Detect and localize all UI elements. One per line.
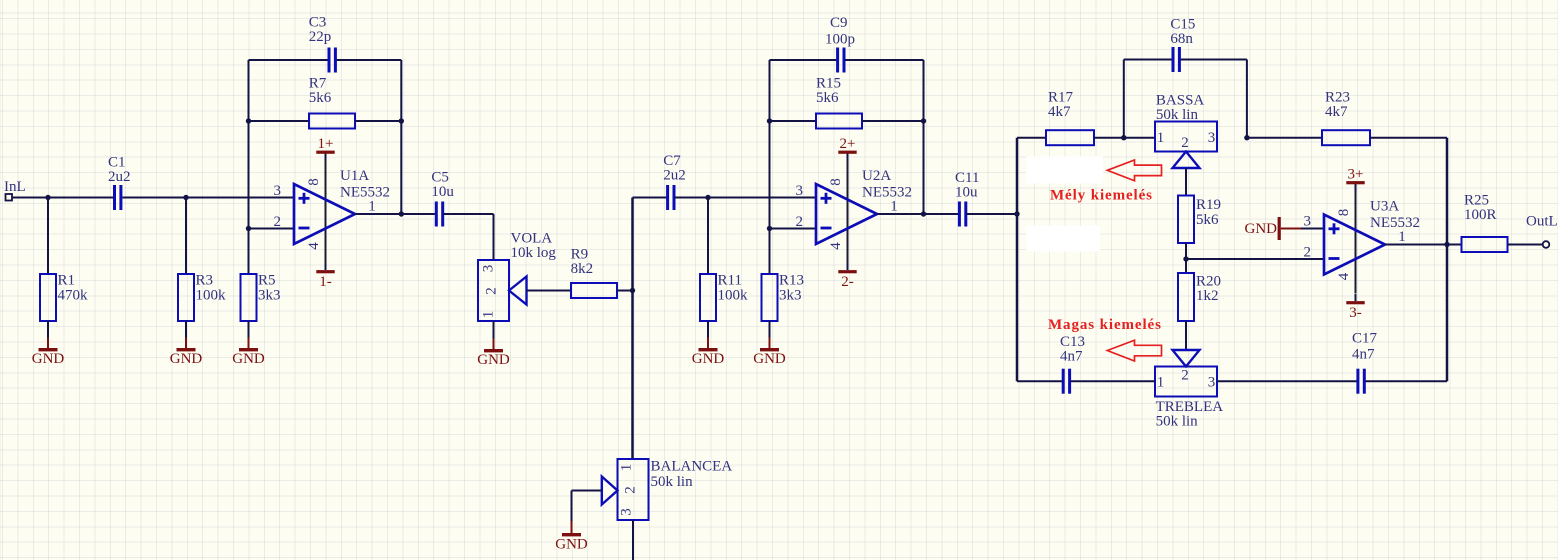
resistor R1	[40, 273, 88, 322]
svg-text:4: 4	[306, 242, 322, 250]
white patch upper	[1026, 157, 1103, 184]
wire right vertical U2A feedback	[923, 60, 925, 214]
svg-text:2: 2	[484, 287, 500, 295]
ground	[477, 339, 510, 369]
wire C9 left	[770, 59, 837, 61]
wire R1 to gnd	[47, 321, 49, 338]
resistor R13	[762, 273, 805, 322]
wire wiper down	[571, 491, 573, 523]
svg-text:8: 8	[1336, 209, 1352, 217]
svg-text:8: 8	[828, 178, 844, 186]
node C15 left junction	[1121, 135, 1126, 140]
svg-text:GND: GND	[753, 351, 786, 367]
svg-text:4: 4	[1336, 272, 1352, 280]
wire R25 to OutL	[1508, 244, 1543, 246]
svg-text:Magas kiemelés: Magas kiemelés	[1048, 317, 1162, 333]
svg-text:Mély kiemelés: Mély kiemelés	[1050, 188, 1153, 204]
svg-text:InL: InL	[4, 179, 26, 195]
wire 1+ to U1A	[325, 153, 327, 162]
node pin2 junction U2A	[767, 226, 772, 231]
potentiometer BASSA	[1155, 93, 1217, 169]
node C11 rail junction	[1014, 211, 1019, 216]
wire GND to U3A pin3	[1301, 228, 1324, 230]
node output U3A junction	[1444, 242, 1449, 247]
node R9 rail junction	[630, 288, 635, 293]
svg-text:22p: 22p	[309, 29, 332, 45]
wire C3 right	[337, 59, 402, 61]
resistor R11	[700, 273, 748, 322]
svg-text:2: 2	[1303, 245, 1311, 261]
svg-text:2u2: 2u2	[663, 168, 686, 184]
resistor R25	[1462, 193, 1508, 253]
wire input	[12, 197, 113, 199]
node feedback R15 left	[767, 118, 772, 123]
wire R15 right	[862, 120, 924, 122]
svg-text:3: 3	[481, 265, 497, 273]
ground	[170, 338, 203, 368]
annotation arrow bass	[1107, 160, 1161, 181]
resistor R5	[241, 273, 281, 322]
svg-text:1: 1	[481, 311, 497, 319]
svg-text:U1A: U1A	[340, 168, 369, 184]
svg-text:R19: R19	[1196, 197, 1221, 213]
wire 2+ to U2A	[847, 153, 849, 162]
ground	[692, 338, 725, 368]
capacitor C17	[1352, 331, 1378, 394]
svg-text:1+: 1+	[318, 136, 334, 152]
svg-text:100k: 100k	[718, 288, 749, 304]
wire pin2 U1A	[249, 228, 295, 230]
wire R9 to rail	[617, 290, 633, 292]
wire pin2 node to R5	[248, 229, 250, 275]
resistor R17	[1046, 90, 1094, 146]
capacitor C3	[309, 15, 336, 73]
wire R13 to gnd	[769, 321, 771, 338]
resistor R7	[309, 76, 355, 129]
svg-text:C9: C9	[830, 15, 848, 31]
svg-text:2: 2	[1181, 368, 1189, 384]
port InL terminal	[4, 179, 26, 201]
resistor R3	[178, 273, 226, 322]
svg-text:50k lin: 50k lin	[1156, 414, 1199, 430]
svg-text:GND: GND	[692, 351, 725, 367]
annotation arrow treble	[1107, 340, 1161, 361]
wire R19 to R20	[1185, 243, 1187, 273]
wire C13 to TREBLEA	[1071, 380, 1155, 382]
svg-text:GND: GND	[32, 351, 65, 367]
wire C11 to rail	[966, 213, 1017, 215]
wire feedback left vertical U2A	[769, 60, 771, 229]
wire C15 junction to R23	[1247, 137, 1322, 139]
svg-text:1: 1	[1157, 375, 1165, 391]
svg-text:BALANCEA: BALANCEA	[651, 459, 733, 475]
white patch lower	[1026, 226, 1100, 252]
potentiometer TREBLEA	[1155, 350, 1223, 430]
wire U2A to 2-	[847, 263, 849, 270]
wire C17 to right vertical	[1366, 380, 1448, 382]
wire C15 right	[1181, 59, 1247, 61]
wire R5 to gnd	[248, 321, 250, 338]
svg-text:NE5532: NE5532	[862, 185, 912, 201]
svg-text:3: 3	[1303, 214, 1311, 230]
svg-text:OutL: OutL	[1526, 214, 1558, 230]
svg-text:50k lin: 50k lin	[1156, 107, 1199, 123]
wire feedback left vertical U1A	[248, 60, 250, 229]
svg-text:3: 3	[795, 183, 803, 199]
node R7 right	[399, 118, 404, 123]
svg-text:4n7: 4n7	[1352, 347, 1375, 363]
svg-text:R3: R3	[196, 273, 214, 289]
svg-text:3k3: 3k3	[258, 288, 281, 304]
svg-text:GND: GND	[1245, 221, 1278, 237]
svg-text:2: 2	[273, 214, 281, 230]
ground	[232, 338, 265, 368]
wire 3+ to U3A	[1355, 184, 1357, 193]
op-amp U2A	[795, 161, 912, 263]
power port 1-	[316, 270, 334, 290]
svg-text:GND: GND	[555, 537, 588, 553]
svg-text:1k2: 1k2	[1196, 288, 1219, 304]
svg-text:U3A: U3A	[1370, 199, 1399, 215]
svg-text:3: 3	[273, 183, 281, 199]
svg-text:8k2: 8k2	[571, 261, 594, 277]
svg-text:2: 2	[623, 486, 639, 494]
wire C9 right	[845, 59, 923, 61]
wire right vertical U1A feedback	[400, 60, 402, 214]
resistor R15	[816, 76, 862, 129]
svg-text:1-: 1-	[319, 274, 332, 290]
potentiometer VOLA	[478, 231, 556, 322]
svg-text:2+: 2+	[840, 136, 856, 152]
svg-text:C17: C17	[1352, 331, 1378, 347]
node junction R3	[183, 195, 188, 200]
wire R7 right	[355, 120, 401, 122]
svg-text:2: 2	[1181, 135, 1189, 151]
resistor R20	[1178, 273, 1221, 321]
capacitor C1	[108, 155, 131, 211]
wire C15 left	[1124, 59, 1172, 61]
svg-text:8: 8	[306, 178, 322, 186]
wire rail corner to C7	[633, 197, 668, 199]
power port 2+	[838, 136, 856, 154]
wire R11 to gnd	[707, 321, 709, 338]
svg-text:3+: 3+	[1348, 167, 1364, 183]
svg-text:10u: 10u	[431, 184, 454, 200]
wire R7 left	[249, 120, 310, 122]
resistor R9	[571, 247, 617, 299]
svg-text:NE5532: NE5532	[1370, 215, 1420, 231]
ground	[753, 338, 786, 368]
svg-text:4k7: 4k7	[1048, 104, 1071, 120]
svg-text:1: 1	[1398, 229, 1406, 245]
wire to R11	[707, 198, 709, 275]
op-amp U3A	[1303, 192, 1420, 294]
svg-text:R13: R13	[779, 273, 804, 289]
wire U1A output	[355, 213, 436, 215]
power port 3-	[1346, 301, 1364, 321]
node feedback R7 left	[246, 118, 251, 123]
wire to R1	[47, 198, 49, 275]
power port 1+	[316, 136, 334, 154]
capacitor C5	[431, 170, 454, 227]
power port 3+	[1346, 167, 1364, 185]
svg-text:GND: GND	[232, 351, 265, 367]
svg-text:R5: R5	[258, 273, 276, 289]
svg-text:50k lin: 50k lin	[651, 474, 694, 490]
wire R3 to gnd	[185, 321, 187, 338]
wire U3A to 3-	[1355, 294, 1357, 301]
wire down to VOLA	[493, 214, 495, 260]
wire tone left rail	[1016, 138, 1019, 382]
node C15 right junction	[1244, 135, 1249, 140]
svg-text:3-: 3-	[1349, 305, 1362, 321]
svg-text:R11: R11	[718, 273, 742, 289]
node junction R11	[705, 195, 710, 200]
wire C15 left vertical	[1123, 60, 1125, 138]
svg-text:4n7: 4n7	[1060, 349, 1083, 365]
node input junction R1	[45, 195, 50, 200]
wire R20 to TREBLEA wiper	[1185, 321, 1187, 350]
node R19 R20 junction	[1183, 256, 1188, 261]
port OutL terminal	[1526, 214, 1558, 248]
svg-text:2-: 2-	[841, 274, 854, 290]
svg-text:68n: 68n	[1170, 31, 1193, 47]
wire R15 left	[770, 120, 817, 122]
wire U1A to 1-	[325, 263, 327, 270]
capacitor C13	[1060, 334, 1085, 394]
wire TREBLEA to C17	[1217, 380, 1357, 382]
capacitor C11	[955, 170, 979, 227]
wire BALANCEA wiper	[572, 490, 602, 492]
svg-text:R1: R1	[58, 273, 76, 289]
wire rail to R17	[1017, 137, 1046, 139]
svg-text:1: 1	[1157, 130, 1165, 146]
svg-text:470k: 470k	[58, 288, 89, 304]
svg-text:3: 3	[619, 508, 635, 516]
svg-text:4: 4	[828, 242, 844, 250]
svg-text:2: 2	[795, 214, 803, 230]
wire rail to C13	[1017, 380, 1062, 382]
wire pin2 node to R13	[769, 229, 771, 275]
svg-text:1: 1	[368, 198, 376, 214]
node R15 right	[921, 118, 926, 123]
svg-text:GND: GND	[477, 352, 510, 368]
svg-text:10u: 10u	[955, 185, 978, 201]
wire U3A output	[1385, 244, 1462, 246]
wire C5 to corner	[443, 213, 494, 215]
wire junction to U3A pin2	[1186, 258, 1324, 260]
svg-text:1: 1	[890, 198, 898, 214]
potentiometer BALANCEA	[602, 459, 733, 521]
svg-text:5k6: 5k6	[816, 90, 839, 106]
ground	[555, 521, 588, 553]
svg-text:3: 3	[1208, 130, 1216, 146]
wire VOLA wiper to R9	[527, 290, 572, 292]
wire C1 to opamp pin3	[123, 197, 295, 199]
svg-text:5k6: 5k6	[309, 90, 332, 106]
wire BALANCEA pin3 down	[632, 520, 634, 560]
svg-text:100p: 100p	[825, 32, 855, 48]
svg-text:5k6: 5k6	[1196, 212, 1219, 228]
wire C7 to U2A	[675, 197, 817, 199]
op-amp U1A	[273, 161, 390, 263]
svg-text:NE5532: NE5532	[340, 185, 390, 201]
wire BASSA wiper to R19	[1185, 168, 1187, 196]
wire pin2 U2A	[770, 228, 817, 230]
wire R23 to right vertical	[1370, 137, 1447, 139]
svg-text:10k log: 10k log	[511, 245, 557, 261]
wire right vertical U3A	[1446, 138, 1449, 382]
wire R17 to BASSA	[1094, 137, 1155, 139]
resistor R19	[1178, 196, 1221, 244]
svg-text:3: 3	[1208, 375, 1216, 391]
resistor R23	[1322, 90, 1370, 146]
svg-text:100R: 100R	[1464, 207, 1497, 223]
wire U2A output	[877, 213, 959, 215]
svg-text:100k: 100k	[196, 288, 227, 304]
node pin2 junction U1A	[246, 226, 251, 231]
svg-text:3k3: 3k3	[779, 288, 802, 304]
node output U1A	[399, 211, 404, 216]
wire C15 right vertical	[1246, 60, 1248, 138]
svg-text:4k7: 4k7	[1325, 104, 1348, 120]
capacitor C15	[1170, 17, 1195, 73]
svg-text:GND: GND	[170, 351, 203, 367]
svg-text:1: 1	[619, 464, 635, 472]
power port GND U3A	[1245, 217, 1302, 240]
capacitor C9	[825, 15, 855, 73]
power port 2-	[838, 270, 856, 290]
wire to R3	[185, 198, 187, 275]
capacitor C7	[663, 153, 686, 210]
svg-text:U2A: U2A	[862, 168, 891, 184]
wire VOLA pin1 to gnd	[493, 321, 495, 339]
wire center rail	[631, 198, 634, 460]
node output U2A	[921, 211, 926, 216]
ground	[32, 338, 65, 368]
svg-text:2u2: 2u2	[108, 169, 131, 185]
wire C3 left	[249, 59, 328, 61]
